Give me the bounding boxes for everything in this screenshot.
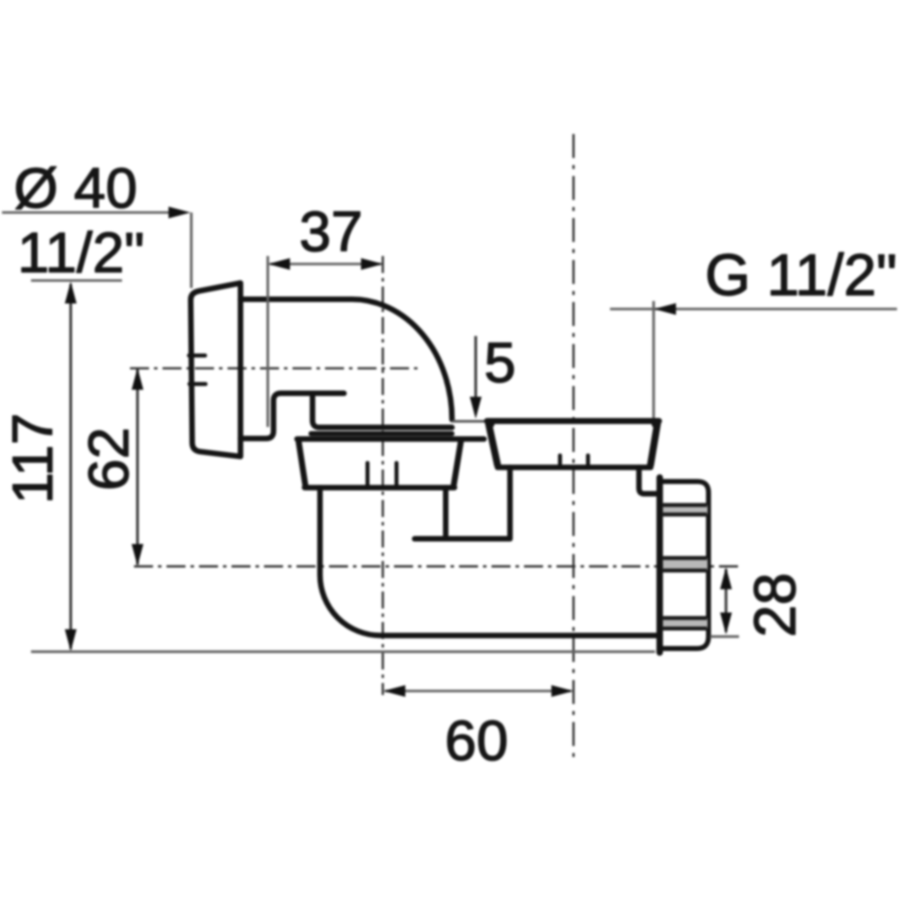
dimension 5 line (474, 336, 477, 414)
dimension 5 arrow (470, 397, 482, 419)
svg-text:117: 117 (1, 413, 65, 504)
trap outer wall and bottom (320, 488, 657, 636)
dimension 62 arrow top (132, 368, 144, 390)
inlet socket bottom edge (498, 465, 651, 471)
nut tick left (366, 463, 370, 485)
dimension 117 extension line bottom (31, 650, 655, 653)
svg-text:37: 37 (299, 200, 362, 264)
outlet flange body (663, 482, 709, 649)
dimension 117 arrow top (65, 282, 77, 304)
pipe bottom outline and inner socket edge (241, 393, 345, 438)
dimension 28 arrow top (720, 567, 732, 589)
inlet socket rim blob left (485, 419, 494, 428)
inlet socket top edge (487, 418, 659, 424)
svg-text:62: 62 (77, 427, 141, 490)
pipe top outline and elbow outer arc (241, 299, 453, 419)
dimension 60 arrow right (551, 685, 573, 697)
nut top edge and ledge (297, 436, 484, 442)
nut left slant (299, 441, 306, 487)
flange cap thread tick upper (189, 354, 205, 358)
nut tick right (395, 463, 399, 485)
inlet socket rim blob right (651, 419, 660, 428)
dimension 62 arrow bottom (132, 544, 144, 566)
elbow inner step to washer (313, 395, 453, 428)
nut bottom edge (305, 485, 455, 491)
inlet socket right slant (651, 423, 658, 465)
inlet socket left slant (489, 423, 498, 465)
dimension G 11/2 extension line (652, 301, 655, 418)
dimension 62 line (136, 370, 139, 565)
washer second line (311, 431, 452, 436)
trap inner wall (443, 488, 449, 539)
outlet flange collar strip (656, 478, 663, 653)
dimension G 11/2 leader line (610, 308, 897, 311)
dimension 28 arrow bottom (720, 613, 732, 635)
centerline vertical elbow axis (382, 256, 384, 695)
thread band 2 fill (663, 558, 708, 571)
dimension 28 extension line bottom (710, 635, 739, 638)
wall flange cap (191, 283, 241, 457)
dimension 117 line (69, 284, 72, 649)
dimension 117 arrow bottom (65, 629, 77, 651)
dimension 37 extension line left (266, 256, 269, 427)
dimension 60 line (385, 690, 571, 693)
centerline horizontal upper pipe axis (130, 367, 420, 369)
dimension 37 line (270, 263, 381, 266)
outlet step under socket (639, 467, 657, 493)
thin gap bridge line (452, 420, 487, 423)
thread band 1 fill (663, 505, 708, 515)
dimension 37 arrow left (268, 258, 290, 270)
dimension 28 line (725, 569, 728, 632)
label 11/2 underline (31, 279, 122, 282)
dimension diameter 40 extension line (190, 213, 193, 289)
svg-text:G 11/2": G 11/2" (705, 243, 897, 308)
dimension 37 arrow right (361, 258, 383, 270)
nut right slant (454, 441, 462, 487)
dimension diameter 40 leader line (2, 211, 170, 214)
inlet socket tick left (558, 456, 562, 467)
inlet socket tick right (586, 456, 590, 467)
outlet inner top edge (415, 467, 510, 538)
dimension diameter 40 arrow (169, 207, 191, 219)
svg-text:28: 28 (743, 573, 808, 638)
flange cap thread tick lower (190, 382, 206, 386)
thread band 1 lines (663, 505, 707, 515)
dimension 60 arrow left (383, 685, 405, 697)
svg-text:5: 5 (484, 331, 516, 395)
dimension G 11/2 arrow (654, 303, 676, 315)
thread band 2 lines (663, 558, 707, 571)
svg-text:60: 60 (445, 709, 508, 773)
svg-text:Ø 40: Ø 40 (14, 157, 138, 221)
thread band 3 lines (663, 618, 707, 629)
centerline horizontal outlet axis (134, 565, 740, 567)
centerline vertical outlet socket axis (572, 134, 574, 763)
thread band 3 fill (663, 618, 708, 629)
svg-text:11/2": 11/2" (18, 221, 145, 285)
